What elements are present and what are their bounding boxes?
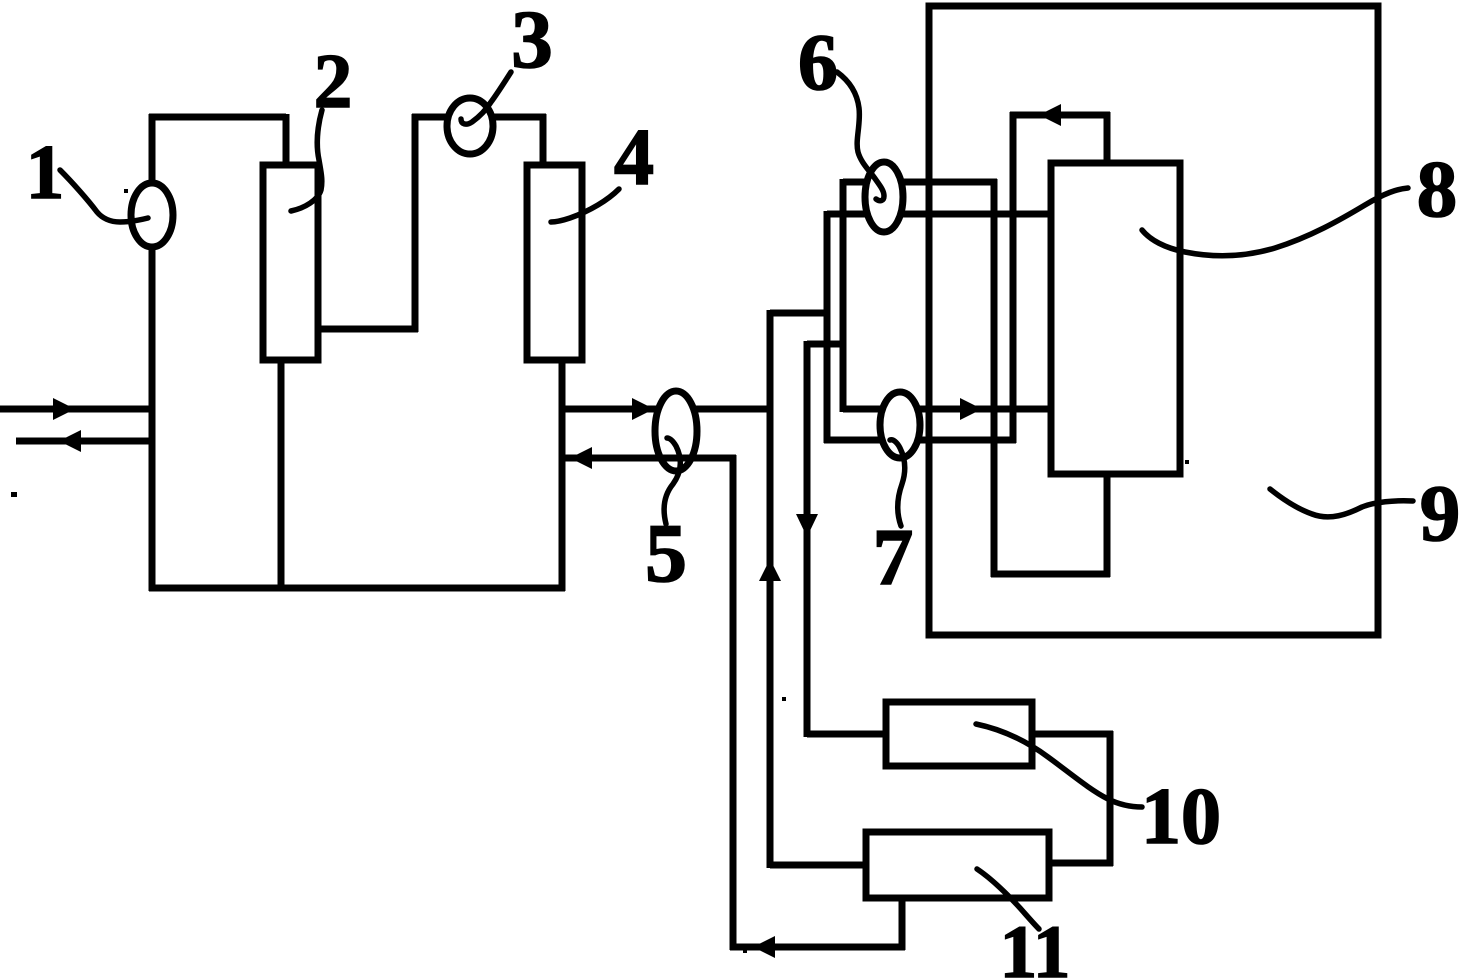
wire pipe y=214 to cell 8	[827, 211, 1054, 218]
arrow up riser x=770	[759, 559, 781, 581]
wire vertical x=827	[824, 211, 831, 443]
wire left riser through pump 1 position x=152	[149, 114, 156, 591]
pump 5	[655, 391, 697, 471]
wire bottom return horizontal y=947	[730, 944, 905, 951]
wire pipe y=409 to cell 8	[843, 406, 1054, 413]
leader for label 7	[890, 440, 905, 526]
wire return y=458 drawn over pump 5	[562, 455, 736, 462]
valve 3	[447, 98, 493, 154]
leader for label 8	[1142, 188, 1408, 256]
wire feed inlet line	[0, 406, 152, 413]
arrow into pump 5	[632, 398, 654, 420]
pump 1	[131, 183, 173, 247]
leader for label 11	[977, 869, 1039, 929]
wire humidifier box right edge	[991, 179, 998, 577]
wire U-turn riser	[412, 114, 419, 332]
leader for label 2	[291, 110, 322, 211]
speck	[1185, 460, 1189, 464]
leader for label 9	[1270, 489, 1413, 517]
arrow bottom return	[753, 936, 775, 958]
wire return outlet line	[16, 438, 152, 445]
pump 7	[880, 392, 920, 458]
arrow into cell 8 y=409	[960, 398, 982, 420]
wire drop into vessel 4 top	[540, 114, 547, 168]
arrow feed inlet	[53, 398, 75, 420]
wire riser x=770	[767, 310, 774, 868]
wire humidifier box top edge	[843, 179, 997, 186]
wire vessel 2 right outlet horizontal	[318, 326, 418, 333]
speck	[743, 949, 747, 953]
wire unit 11 bottom drop	[899, 895, 906, 950]
svg-text:8: 8	[1417, 144, 1458, 234]
wire horizontal through valve 3	[412, 114, 546, 121]
arrow down descender x=807	[796, 514, 818, 537]
speck	[782, 697, 786, 701]
enclosure 9	[929, 6, 1378, 635]
wire loop descender x=1110	[1107, 731, 1114, 866]
wire to unit 10 inlet	[807, 731, 889, 738]
cell 8	[1051, 163, 1180, 474]
svg-text:2: 2	[314, 38, 353, 124]
wire into unit 11 right	[1046, 860, 1113, 867]
wire descender x=807	[804, 341, 811, 737]
speck	[124, 189, 128, 193]
svg-text:3: 3	[511, 0, 553, 85]
leader for label 1	[60, 170, 148, 222]
unit 10	[886, 702, 1032, 766]
svg-text:10: 10	[1141, 773, 1221, 861]
wire drop into vessel 2 top	[283, 114, 290, 168]
arrow return outlet	[59, 430, 81, 452]
leader for label 5	[664, 438, 680, 524]
wire pipe y=440	[824, 437, 1016, 444]
wire vessel 2 bottom drop	[278, 358, 285, 591]
wire return descender x=733	[730, 455, 737, 950]
svg-text:1: 1	[26, 129, 65, 215]
leader for label 6	[837, 72, 884, 201]
wire top-left horizontal from pump 1 riser to vessel 2 inlet	[149, 114, 286, 121]
wire recirc top edge y=115	[1010, 112, 1110, 119]
wire bottom loop horizontal	[149, 585, 565, 592]
wire unit 10 outlet horizontal	[1029, 731, 1113, 738]
vessel 4	[527, 165, 582, 360]
svg-text:9: 9	[1420, 468, 1459, 558]
leader for label 10	[976, 724, 1142, 807]
wire from vessel 4 drop to pump 5	[562, 406, 773, 413]
wire bottom loop to cell 8	[991, 571, 1110, 578]
svg-text:11: 11	[1000, 911, 1071, 979]
wire to unit 11 inlet	[770, 862, 869, 869]
svg-text:6: 6	[798, 19, 838, 107]
svg-text:4: 4	[614, 114, 654, 202]
arrow return toward vessel 4	[570, 447, 592, 469]
speck	[11, 492, 17, 497]
wire vessel 4 bottom drop	[559, 358, 566, 591]
leader for label 3	[461, 72, 511, 124]
leader for label 4	[551, 189, 619, 222]
wire humidifier box left edge	[840, 179, 847, 412]
wire drop into cell 8 top	[1104, 112, 1111, 166]
vessel 2	[263, 165, 318, 360]
pump 6	[865, 162, 903, 232]
arrow recirc top y=115	[1039, 104, 1061, 126]
wire riser into cell 8 bottom	[1104, 471, 1111, 577]
wire jog y=313	[770, 310, 830, 317]
wire recirc left edge x=1013	[1010, 112, 1017, 443]
svg-text:5: 5	[645, 507, 687, 600]
wire jog y=344	[807, 341, 846, 348]
svg-text:7: 7	[873, 512, 914, 602]
unit 11	[866, 832, 1049, 898]
